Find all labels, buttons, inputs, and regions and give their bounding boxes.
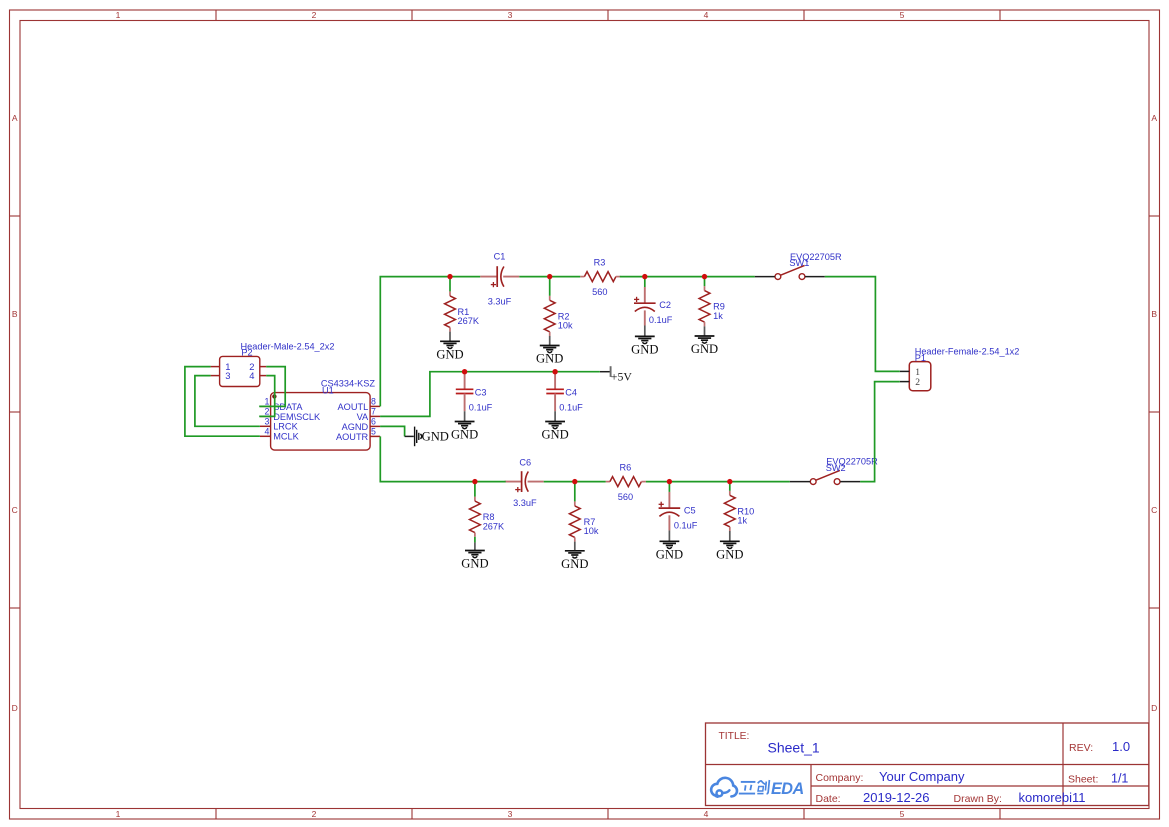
wire C5 top: [668, 482, 670, 492]
Company label: [816, 772, 864, 784]
capacitor C1 (polarized, horizontal): [480, 266, 519, 287]
svg-text:R3: R3: [594, 257, 606, 267]
svg-text:P2: P2: [241, 348, 252, 358]
P2 refdes label: [241, 348, 252, 358]
wire P2 pin4 to U1 DEM\SCLK: [259, 376, 275, 417]
svg-text:A: A: [12, 113, 18, 123]
svg-text:3: 3: [264, 416, 269, 426]
wire AOUTR riser to bottom rail: [380, 436, 505, 481]
P2 pin numbers: [225, 361, 254, 381]
logo text 立创 (drawn strokes): [739, 780, 770, 794]
svg-text:0.1uF: 0.1uF: [559, 403, 583, 413]
svg-text:C: C: [1151, 505, 1157, 515]
svg-text:1: 1: [116, 809, 121, 819]
ground under R1: [436, 332, 463, 362]
svg-text:AOUTR: AOUTR: [336, 432, 369, 442]
svg-text:7: 7: [371, 406, 376, 416]
wire R9 top: [704, 277, 706, 287]
wire R10 top: [729, 482, 731, 491]
wire SW1 left lead: [755, 276, 775, 278]
ground under C5: [656, 530, 683, 561]
R2 labels: [558, 311, 573, 330]
header P2 Header-Male-2.54_2x2 body: [220, 356, 260, 386]
R10 labels: [737, 506, 754, 525]
svg-text:Date:: Date:: [816, 793, 841, 805]
R6 labels: [618, 463, 633, 503]
P1 pin stubs: [900, 371, 910, 381]
svg-text:10k: 10k: [584, 526, 599, 536]
svg-text:3: 3: [225, 370, 230, 381]
svg-text:Sheet:: Sheet:: [1068, 774, 1098, 786]
EasyEDA cloud logo: [711, 778, 737, 797]
R3 labels: [592, 257, 607, 297]
resistor R9: [699, 286, 710, 326]
svg-text:267K: 267K: [458, 316, 480, 326]
svg-text:GND: GND: [716, 548, 743, 562]
svg-text:VA: VA: [357, 412, 369, 422]
svg-text:2: 2: [312, 809, 317, 819]
svg-text:5: 5: [900, 10, 905, 20]
R9 labels: [713, 302, 725, 321]
sheet title Sheet_1: [768, 739, 820, 755]
wire top rail R3 to SW1: [620, 276, 755, 278]
svg-text:C: C: [12, 505, 18, 515]
junction dots: [447, 274, 732, 484]
Sheet label: [1068, 774, 1098, 786]
capacitor C2 (polarized, vertical): [634, 287, 656, 326]
svg-text:560: 560: [592, 287, 607, 297]
svg-text:GND: GND: [451, 428, 478, 442]
svg-text:1/1: 1/1: [1111, 772, 1128, 786]
frame column numbers top: [116, 10, 905, 20]
frame row letters left: [12, 113, 18, 713]
title block: [706, 723, 1149, 806]
C3 labels: [469, 387, 493, 412]
P2 pin stubs: [211, 367, 267, 376]
wire SW1 to P1 pin 1: [825, 277, 900, 372]
REV value 1.0: [1112, 739, 1130, 754]
wire P2 pin2 to U1 SDATA: [259, 367, 285, 407]
+5V power flag: [600, 366, 633, 383]
wire SW2 left lead: [790, 481, 810, 483]
R7 labels: [584, 517, 599, 536]
frame column numbers bottom: [116, 809, 905, 819]
Date label: [816, 793, 841, 805]
svg-text:1k: 1k: [737, 516, 747, 526]
svg-text:0.1uF: 0.1uF: [469, 403, 493, 413]
svg-text:2: 2: [312, 10, 317, 20]
R8 labels: [483, 512, 505, 531]
svg-text:Header-Male-2.54_2x2: Header-Male-2.54_2x2: [241, 341, 335, 351]
ground under R2: [536, 336, 563, 366]
wire P2 pin3 to U1 LRCK: [195, 376, 260, 427]
wire R8 top: [474, 482, 476, 497]
U1 refdes label: [322, 385, 334, 395]
Date value: [863, 790, 930, 805]
resistor R7: [569, 501, 580, 541]
svg-text:5: 5: [371, 426, 376, 436]
U1 right pin stubs (pins 8-5): [370, 406, 380, 436]
svg-text:6: 6: [371, 416, 376, 426]
op chip U1 CS4334-KSZ body: [271, 393, 371, 451]
svg-text:GND: GND: [461, 557, 488, 571]
wire bottom rail C6 to R6: [544, 481, 606, 483]
wire R8 bottom stub: [474, 537, 476, 543]
Company value: [879, 769, 965, 784]
logo text EDA: [771, 780, 804, 798]
svg-text:C3: C3: [475, 387, 487, 397]
svg-text:C5: C5: [684, 505, 696, 515]
svg-text:B: B: [12, 309, 18, 319]
svg-text:3: 3: [508, 809, 513, 819]
resistor R8: [470, 497, 481, 537]
svg-text:0.1uF: 0.1uF: [674, 520, 698, 530]
svg-text:SW2: SW2: [826, 463, 846, 473]
svg-text:MCLK: MCLK: [273, 432, 299, 442]
svg-text:GND: GND: [691, 342, 718, 356]
svg-text:TITLE:: TITLE:: [719, 731, 750, 742]
resistor R1: [445, 291, 456, 331]
svg-text:GND: GND: [656, 548, 683, 562]
capacitor C5 (polarized, vertical): [659, 492, 681, 531]
switch SW2 EVQ22705R: [810, 470, 840, 484]
C6 labels: [513, 458, 537, 508]
capacitor C6 (polarized, horizontal): [505, 471, 544, 492]
P1 part name label: [915, 346, 1020, 356]
svg-text:2: 2: [264, 406, 269, 416]
svg-text:4: 4: [704, 809, 709, 819]
svg-text:GND: GND: [561, 557, 588, 571]
svg-text:Company:: Company:: [816, 772, 864, 784]
svg-text:Drawn By:: Drawn By:: [954, 793, 1002, 805]
ground under C2: [631, 326, 658, 357]
wire P2 pin1 to U1 MCLK: [185, 367, 260, 437]
svg-text:+5V: +5V: [611, 370, 633, 384]
svg-text:EDA: EDA: [771, 780, 804, 798]
svg-text:U1: U1: [322, 385, 334, 395]
svg-text:C2: C2: [659, 300, 671, 310]
svg-text:SW1: SW1: [789, 258, 809, 268]
svg-text:DEM\SCLK: DEM\SCLK: [273, 412, 321, 422]
U1 left pin stubs (pins 1-4): [260, 406, 271, 436]
svg-text:GND: GND: [422, 430, 449, 444]
wire SW1 right lead: [805, 276, 825, 278]
frame row letters right: [1151, 113, 1157, 713]
svg-text:D: D: [1151, 703, 1157, 713]
svg-text:560: 560: [618, 492, 633, 502]
svg-text:A: A: [1151, 113, 1157, 123]
svg-text:4: 4: [704, 10, 709, 20]
svg-text:C4: C4: [565, 387, 577, 397]
SW1 labels: [789, 252, 842, 268]
svg-text:1: 1: [264, 396, 269, 406]
svg-text:267K: 267K: [483, 521, 505, 531]
C4 labels: [559, 387, 583, 412]
svg-text:GND: GND: [541, 428, 568, 442]
svg-text:4: 4: [264, 426, 269, 436]
svg-text:Sheet_1: Sheet_1: [768, 739, 820, 755]
Sheet value 1/1: [1111, 772, 1128, 786]
svg-text:2: 2: [915, 377, 920, 388]
svg-text:GND: GND: [536, 352, 563, 366]
svg-text:5: 5: [900, 809, 905, 819]
P1 refdes label: [915, 353, 926, 363]
svg-text:komorebi11: komorebi11: [1019, 790, 1086, 805]
svg-text:AOUTL: AOUTL: [338, 402, 369, 412]
svg-text:REV:: REV:: [1069, 742, 1093, 754]
ground under R7: [561, 542, 588, 571]
P1 pin numbers: [915, 367, 920, 388]
resistor R10: [724, 491, 735, 531]
wire R7 top: [574, 482, 576, 502]
svg-text:GND: GND: [436, 348, 463, 362]
Drawn By label: [954, 793, 1002, 805]
svg-text:3.3uF: 3.3uF: [488, 297, 512, 307]
svg-text:R6: R6: [620, 463, 632, 473]
svg-text:Header-Female-2.54_1x2: Header-Female-2.54_1x2: [915, 346, 1020, 356]
wire AGND to ground: [380, 426, 405, 436]
svg-text:3: 3: [508, 10, 513, 20]
REV label: [1069, 742, 1093, 754]
svg-text:1k: 1k: [713, 311, 723, 321]
title block text TITLE: [719, 731, 750, 742]
ground under R8: [461, 542, 488, 570]
C2 labels: [649, 300, 673, 325]
header P1 Header-Female-2.54_1x2 body: [909, 362, 931, 391]
ground under C4: [541, 411, 568, 442]
ground under R9: [691, 326, 718, 356]
ground under R10: [716, 531, 743, 562]
wire R1 top: [449, 277, 451, 292]
C1 labels: [488, 252, 512, 307]
svg-text:GND: GND: [631, 343, 658, 357]
svg-text:AGND: AGND: [342, 422, 369, 432]
capacitor C4: [546, 372, 564, 412]
resistor R3: [580, 272, 620, 282]
wire AGND black segment: [405, 435, 414, 437]
U1 pin numbers: [264, 396, 376, 436]
svg-text:B: B: [1151, 309, 1157, 319]
wire SW2 to P1 pin 2: [860, 382, 900, 482]
P2 part name label: [241, 341, 335, 351]
ground at U1 AGND (rotated): [415, 427, 449, 447]
svg-text:LRCK: LRCK: [273, 422, 298, 432]
switch SW1 EVQ22705R: [775, 265, 805, 279]
svg-text:3.3uF: 3.3uF: [513, 498, 537, 508]
svg-text:P1: P1: [915, 353, 926, 363]
resistor R2: [544, 296, 555, 336]
svg-text:4: 4: [249, 370, 254, 381]
capacitor C3: [456, 372, 474, 412]
wire AOUTL riser to top rail: [380, 277, 480, 407]
SW2 labels: [826, 457, 878, 473]
ground under C3: [451, 411, 478, 442]
svg-text:10k: 10k: [558, 321, 573, 331]
wire R2 top: [549, 277, 551, 296]
wire C2 top: [644, 277, 646, 287]
resistor R6: [606, 477, 646, 487]
R1 labels: [458, 307, 480, 326]
svg-text:1.0: 1.0: [1112, 739, 1130, 754]
svg-text:2019-12-26: 2019-12-26: [863, 790, 930, 805]
U1 pin names: [273, 402, 369, 442]
Drawn By value komorebi11: [1019, 790, 1086, 805]
wire bottom rail R6 to SW2: [646, 481, 790, 483]
svg-text:C1: C1: [494, 252, 506, 262]
wire VA to +5V rail: [380, 372, 600, 417]
U1 part name label: [321, 378, 376, 388]
svg-text:1: 1: [116, 10, 121, 20]
wire SW2 right lead: [840, 481, 860, 483]
wire top rail C1 to R3: [519, 276, 580, 278]
svg-text:8: 8: [371, 396, 376, 406]
svg-text:0.1uF: 0.1uF: [649, 315, 673, 325]
svg-text:D: D: [12, 703, 18, 713]
svg-text:Your Company: Your Company: [879, 769, 965, 784]
svg-text:C6: C6: [519, 458, 531, 468]
C5 labels: [674, 505, 698, 530]
